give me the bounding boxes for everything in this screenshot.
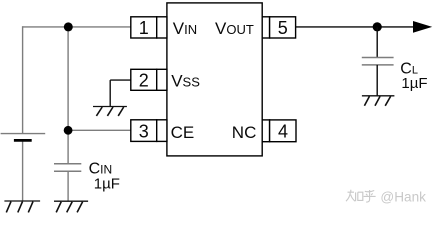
wire pin 2 ground drop (109, 80, 111, 106)
pin 3 box (131, 120, 167, 142)
pin 5 box (262, 17, 295, 38)
wire pin 2 to ground (110, 79, 131, 81)
svg-text:1µF: 1µF (94, 175, 120, 192)
svg-text:VSS: VSS (171, 72, 200, 91)
svg-text:1µF: 1µF (401, 75, 427, 92)
svg-text:2: 2 (139, 70, 149, 90)
node junction dot (output) (373, 22, 382, 31)
wire battery negative to ground (22, 141, 24, 202)
watermark 知乎 @Hank (346, 190, 376, 202)
wire battery positive vertical (22, 26, 24, 133)
ground (CIN) (54, 201, 88, 212)
svg-text:5: 5 (278, 18, 288, 38)
op IC body U1 (167, 3, 262, 156)
pin 1 box (131, 17, 167, 38)
wire top rail from battery to pin 1 (23, 26, 131, 28)
svg-text:NC: NC (232, 123, 257, 142)
svg-text:3: 3 (139, 121, 149, 141)
ground (battery) (4, 201, 40, 212)
wire CIN to ground (67, 171, 69, 201)
capacitor CL (362, 58, 394, 65)
pin 2 box (131, 69, 167, 90)
wire output to CL (376, 27, 378, 58)
svg-text:@Hank: @Hank (380, 189, 426, 204)
node junction dot (CE branch) (64, 126, 73, 135)
wire CL to ground (376, 65, 378, 96)
svg-text:VIN: VIN (173, 19, 197, 38)
pin 4 box (262, 120, 296, 142)
svg-text:4: 4 (278, 121, 288, 141)
arrow output (413, 21, 432, 33)
wire CE branch to pin 3 (68, 129, 131, 131)
node junction dot (top rail) (64, 22, 73, 31)
capacitor CIN (54, 164, 81, 172)
svg-text:1: 1 (139, 18, 149, 38)
battery BT1 (1, 134, 46, 141)
wire output rail pin 5 to arrow (296, 26, 414, 28)
wire vertical from top rail to CIN (67, 27, 69, 164)
ground (pin 2 / VSS) (93, 107, 127, 116)
ground (CL) (362, 96, 395, 106)
svg-text:CE: CE (171, 123, 195, 142)
svg-text:VOUT: VOUT (215, 19, 254, 38)
